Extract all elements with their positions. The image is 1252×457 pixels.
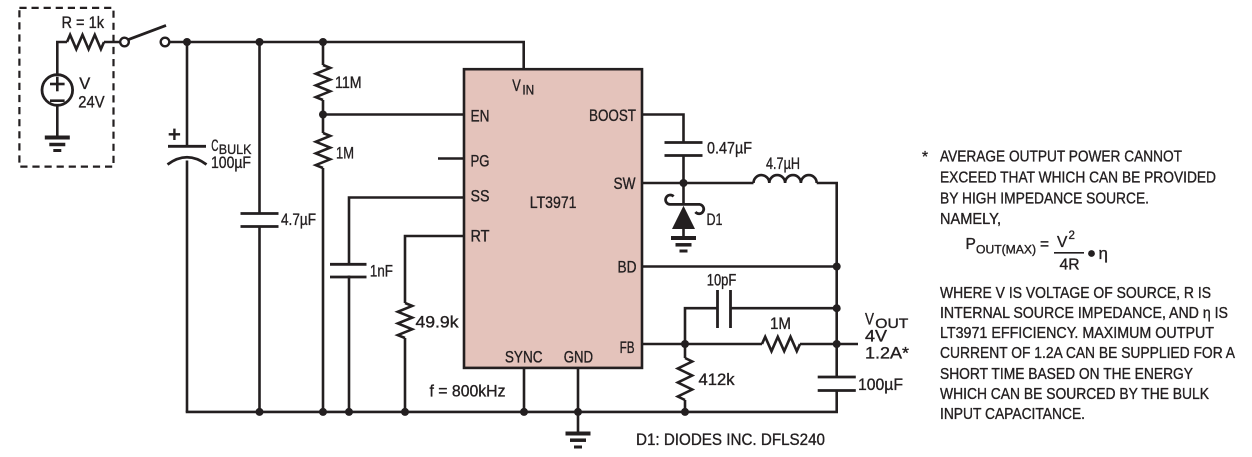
resistor 1M: [316, 133, 330, 168]
switch S1: [120, 25, 169, 46]
wire 1M to output rail: [800, 343, 858, 346]
svg-text:WHICH CAN BE SOURCED BY THE BU: WHICH CAN BE SOURCED BY THE BULK: [940, 386, 1210, 403]
svg-text:SYNC: SYNC: [505, 348, 543, 366]
node dot A: [183, 38, 191, 46]
svg-text:INTERNAL SOURCE IMPEDANCE, AND: INTERNAL SOURCE IMPEDANCE, AND η IS: [940, 305, 1228, 322]
resistor 1M (feedback): [762, 337, 800, 351]
resistor 412k: [684, 344, 687, 358]
wire source top to resistor: [57, 42, 67, 75]
svg-text:R = 1k: R = 1k: [62, 14, 105, 32]
capacitor 1nF: [330, 264, 367, 277]
svg-text:NAMELY,: NAMELY,: [940, 211, 1001, 228]
capacitor 4.7uF: [241, 214, 279, 227]
svg-text:1M: 1M: [770, 315, 791, 333]
FB wire: [642, 343, 762, 346]
node dot EN: [319, 111, 327, 119]
svg-text:1.2A*: 1.2A*: [865, 345, 910, 363]
wire EN node to IC: [323, 113, 464, 116]
svg-text:f = 800kHz: f = 800kHz: [430, 383, 506, 401]
top rail wire: [169, 41, 525, 44]
svg-text:=: =: [1040, 236, 1049, 253]
svg-text:11M: 11M: [335, 74, 362, 92]
node dot 10pF-out: [833, 304, 841, 312]
svg-text:V: V: [1057, 234, 1068, 251]
wire 11M to EN node: [322, 100, 325, 133]
svg-text:C: C: [211, 137, 218, 155]
svg-text:GND: GND: [564, 348, 593, 366]
svg-text:4.7µH: 4.7µH: [766, 155, 800, 173]
VIN pin wire: [522, 42, 525, 69]
svg-text:1nF: 1nF: [370, 262, 393, 280]
svg-text:AVERAGE OUTPUT POWER CANNOT: AVERAGE OUTPUT POWER CANNOT: [940, 149, 1182, 166]
capacitor 0.47uF: [665, 143, 703, 156]
svg-text:η: η: [1099, 244, 1108, 263]
wire top rail to 11M: [322, 42, 325, 65]
svg-text:SHORT TIME BASED ON THE ENERGY: SHORT TIME BASED ON THE ENERGY: [940, 366, 1193, 383]
resistor 11M: [316, 65, 330, 100]
svg-text:4R: 4R: [1060, 257, 1080, 274]
wire SS to 1nF: [349, 198, 464, 265]
svg-text:FB: FB: [620, 339, 635, 357]
diode D1 schottky: [666, 183, 704, 238]
svg-text:LT3971: LT3971: [530, 194, 577, 212]
op IC U1 LT3971: [464, 69, 642, 368]
wire top rail to 4.7uF: [258, 42, 261, 214]
wire 1M to bottom rail: [322, 168, 325, 412]
svg-text:P: P: [966, 236, 976, 253]
wire source bottom to ground: [56, 105, 59, 137]
bottom rail wire: [186, 411, 838, 414]
wire 1nF to bottom rail: [348, 276, 351, 412]
node dot FB: [681, 340, 689, 348]
wire 4.7uF to bottom rail: [258, 227, 261, 412]
wire RT to 49.9k: [405, 236, 464, 303]
wire 412k to bottom rail: [684, 400, 687, 412]
wire FB node up to 10pF: [685, 308, 718, 344]
svg-text:INPUT CAPACITANCE.: INPUT CAPACITANCE.: [940, 406, 1085, 423]
svg-text:V: V: [865, 311, 874, 329]
resistor 49.9k: [398, 303, 412, 338]
ground (GND pin): [566, 434, 591, 448]
wire resistor to switch: [104, 41, 120, 44]
svg-text:EN: EN: [471, 107, 490, 125]
wire 0.47uF to SW node: [682, 156, 685, 184]
BD wire: [642, 265, 837, 268]
svg-text:D1: DIODES INC. DFLS240: D1: DIODES INC. DFLS240: [636, 431, 825, 449]
svg-text:RT: RT: [471, 228, 490, 246]
svg-text:0.47µF: 0.47µF: [707, 140, 752, 158]
node dot B: [256, 38, 264, 46]
svg-text:49.9k: 49.9k: [416, 314, 460, 332]
svg-text:OUT(MAX): OUT(MAX): [976, 245, 1036, 257]
node dot VOUT: [833, 340, 841, 348]
capacitor 10pF: [718, 290, 731, 328]
ground (source): [45, 138, 70, 151]
svg-text:100µF: 100µF: [211, 154, 251, 172]
svg-text:SS: SS: [471, 188, 490, 206]
capacitor 100uF (output): [818, 377, 856, 391]
wire 100uF to bottom rail: [835, 391, 838, 412]
SW wire: [642, 182, 754, 185]
svg-text:EXCEED THAT WHICH CAN BE PROVI: EXCEED THAT WHICH CAN BE PROVIDED: [940, 170, 1216, 187]
svg-text:V: V: [79, 75, 90, 93]
svg-text:4.7µF: 4.7µF: [281, 211, 316, 229]
capacitor CBULK 100uF: [168, 129, 207, 165]
svg-text:V: V: [512, 77, 521, 95]
svg-text:D1: D1: [707, 211, 723, 229]
svg-text:2: 2: [1069, 230, 1075, 242]
SYNC pin wire: [523, 368, 526, 412]
svg-text:*: *: [922, 149, 928, 166]
node dots bottom rail: [256, 408, 264, 416]
svg-text:LT3971 EFFICIENCY. MAXIMUM OUT: LT3971 EFFICIENCY. MAXIMUM OUTPUT: [940, 325, 1214, 342]
voltage source V1 24V: [42, 75, 73, 106]
node dot C: [319, 38, 327, 46]
svg-text:4V: 4V: [865, 328, 887, 346]
resistor R = 1k: [67, 35, 104, 49]
wire 49.9k to bottom rail: [404, 338, 407, 412]
inductor 4.7uH: [754, 175, 817, 183]
GND pin wire: [577, 368, 580, 434]
svg-text:10pF: 10pF: [707, 272, 737, 290]
ground (D1): [671, 238, 696, 251]
wire CBULK to bottom rail: [186, 161, 189, 412]
svg-text:BY HIGH IMPEDANCE SOURCE.: BY HIGH IMPEDANCE SOURCE.: [940, 191, 1149, 208]
PG stub wire: [438, 157, 464, 160]
svg-text:CURRENT OF 1.2A CAN BE SUPPLIE: CURRENT OF 1.2A CAN BE SUPPLIED FOR A: [940, 345, 1236, 362]
svg-text:BOOST: BOOST: [589, 107, 636, 125]
wire top rail to CBULK: [186, 42, 189, 146]
svg-text:BD: BD: [618, 259, 637, 277]
svg-text:412k: 412k: [699, 371, 736, 389]
svg-text:PG: PG: [471, 153, 490, 171]
wire 10pF to output rail: [731, 307, 837, 310]
BOOST wire to 0.47uF: [642, 115, 684, 143]
svg-text:100µF: 100µF: [858, 376, 903, 394]
wire inductor to output rail: [817, 183, 837, 377]
node dot SW: [680, 179, 688, 187]
svg-text:SW: SW: [614, 175, 636, 193]
svg-text:1M: 1M: [336, 145, 354, 163]
dashed source box: [19, 8, 113, 167]
svg-text:IN: IN: [522, 82, 534, 98]
svg-text:WHERE V IS VOLTAGE OF SOURCE,: WHERE V IS VOLTAGE OF SOURCE, R IS: [940, 285, 1211, 302]
node dot BD: [833, 263, 841, 271]
svg-text:24V: 24V: [78, 94, 104, 112]
